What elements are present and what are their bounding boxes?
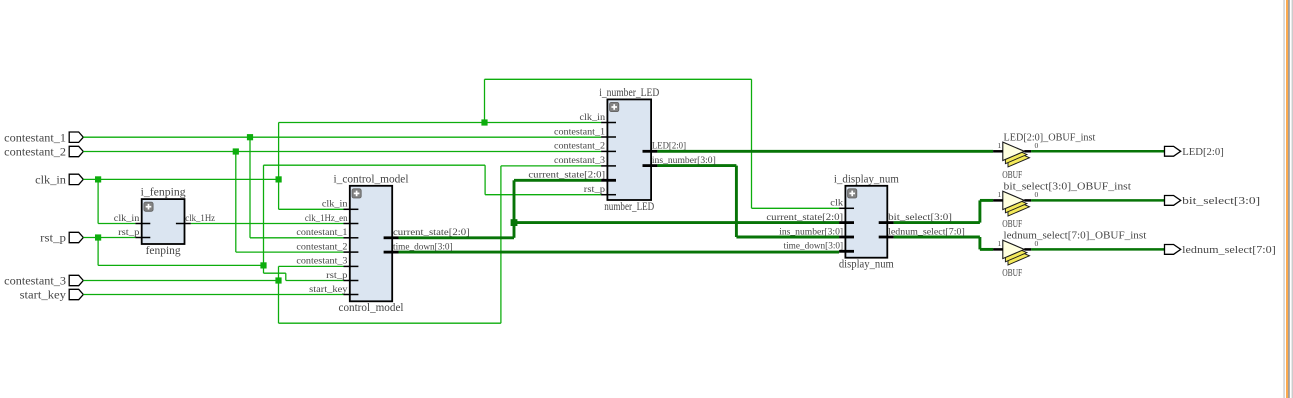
output port lednum_select[7:0] xyxy=(1165,245,1181,255)
pin display_num bit_select[3:0] xyxy=(879,221,894,224)
svg-text:LED[2:0]: LED[2:0] xyxy=(652,141,686,152)
bus LED[2:0] xyxy=(657,150,993,153)
svg-text:contestant_1: contestant_1 xyxy=(4,132,66,144)
svg-text:current_state[2:0]: current_state[2:0] xyxy=(528,170,605,181)
svg-text:contestant_1: contestant_1 xyxy=(554,126,605,137)
module control_model (i_control_model) xyxy=(350,186,392,301)
pin number_LED contestant_2 xyxy=(601,150,616,152)
module display_num (i_display_num) xyxy=(845,186,887,258)
svg-text:lednum_select[7:0]_OBUF_inst: lednum_select[7:0]_OBUF_inst xyxy=(1004,231,1147,242)
junction clk_in/main riser xyxy=(276,176,282,182)
wire contestant_2 net xyxy=(83,152,601,253)
input port rst_p xyxy=(69,232,83,242)
pin display_num time_down[3:0] xyxy=(839,250,854,253)
junction contestant_3 riser xyxy=(275,277,281,283)
pin number_LED clk_in xyxy=(601,122,616,124)
output port bit_select[3:0] xyxy=(1165,196,1181,206)
svg-text:clk_1Hz_en: clk_1Hz_en xyxy=(305,213,348,224)
wire start_key net xyxy=(83,294,343,296)
wire clk_in net xyxy=(83,79,839,223)
svg-text:LED[2:0]: LED[2:0] xyxy=(1182,146,1224,158)
pin control_model contestant_2 xyxy=(344,251,359,253)
module fenping (i_fenping) xyxy=(142,199,185,244)
junction rst_p riser xyxy=(260,262,266,268)
svg-text:contestant_3: contestant_3 xyxy=(554,155,605,166)
svg-text:OBUF: OBUF xyxy=(1002,219,1022,230)
bus ins_number[3:0] xyxy=(657,166,839,237)
svg-text:LED[2:0]_OBUF_inst: LED[2:0]_OBUF_inst xyxy=(1004,133,1096,144)
junction contestant_2 branch xyxy=(233,148,239,154)
buffer U2 bit_select[3:0]_OBUF_inst xyxy=(1008,198,1030,216)
pin control_model rst_p xyxy=(344,280,359,282)
buffer U1 LED[2:0]_OBUF_inst xyxy=(1008,149,1030,167)
pin control_model time_down[3:0] xyxy=(384,251,399,254)
pin fenping clk_1Hz xyxy=(176,223,191,225)
module number_LED (i_number_LED) xyxy=(607,99,651,200)
bus lednum_select OBUF out xyxy=(1031,248,1164,251)
svg-text:i_display_num: i_display_num xyxy=(834,173,899,185)
svg-text:contestant_1: contestant_1 xyxy=(296,227,347,238)
svg-text:clk_in: clk_in xyxy=(114,213,140,224)
scrollbar right edge xyxy=(1283,0,1284,398)
bus LED OBUF out xyxy=(1031,150,1164,153)
pin control_model clk_in xyxy=(344,208,359,210)
input port contestant_3 xyxy=(69,275,83,285)
pin number_LED rst_p xyxy=(601,194,616,196)
pin number_LED current_state[2:0] xyxy=(601,179,616,182)
svg-text:rst_p: rst_p xyxy=(118,227,139,238)
pin fenping clk_in xyxy=(135,223,150,225)
svg-text:1: 1 xyxy=(998,141,1002,150)
pin control_model start_key xyxy=(344,294,359,296)
svg-text:display_num: display_num xyxy=(839,259,894,271)
buffer U3 lednum_select[7:0]_OBUF_inst xyxy=(1008,247,1030,265)
wire contestant_3 net xyxy=(83,166,601,323)
svg-text:contestant_2: contestant_2 xyxy=(4,147,66,159)
svg-text:1: 1 xyxy=(998,190,1002,199)
input port clk_in xyxy=(69,174,83,184)
svg-text:rst_p: rst_p xyxy=(40,233,66,245)
input port start_key xyxy=(69,289,83,299)
svg-text:i_fenping: i_fenping xyxy=(141,187,186,199)
svg-text:ins_number[3:0]: ins_number[3:0] xyxy=(652,155,716,166)
junction clk_in/fenping branch xyxy=(95,176,101,182)
svg-text:i_number_LED: i_number_LED xyxy=(599,87,659,99)
svg-text:1: 1 xyxy=(998,239,1002,248)
wire clk_1Hz net xyxy=(191,223,344,225)
svg-text:time_down[3:0]: time_down[3:0] xyxy=(393,241,453,252)
bus bit_select[3:0] xyxy=(894,200,994,222)
svg-text:current_state[2:0]: current_state[2:0] xyxy=(766,212,843,223)
svg-text:bit_select[3:0]: bit_select[3:0] xyxy=(888,212,952,223)
svg-text:clk_in: clk_in xyxy=(35,175,66,187)
svg-text:ins_number[3:0]: ins_number[3:0] xyxy=(779,226,843,237)
pin number_LED ins_number[3:0] xyxy=(643,164,658,167)
pin number_LED contestant_3 xyxy=(601,165,616,167)
svg-text:contestant_2: contestant_2 xyxy=(296,241,347,252)
svg-text:i_control_model: i_control_model xyxy=(334,173,409,185)
svg-text:rst_p: rst_p xyxy=(326,270,347,281)
output port LED[2:0] xyxy=(1165,146,1181,156)
junction current_state bus xyxy=(511,219,518,226)
svg-text:current_state[2:0]: current_state[2:0] xyxy=(393,227,470,238)
svg-text:clk: clk xyxy=(830,198,843,209)
bus bit_select OBUF out xyxy=(1031,199,1164,202)
pin display_num lednum_select[7:0] xyxy=(879,236,894,239)
svg-text:contestant_2: contestant_2 xyxy=(554,141,605,152)
input port contestant_1 xyxy=(69,132,83,142)
bus time_down[3:0] xyxy=(399,251,840,254)
svg-text:OBUF: OBUF xyxy=(1002,170,1022,181)
svg-text:lednum_select[7:0]: lednum_select[7:0] xyxy=(1182,244,1276,256)
svg-text:bit_select[3:0]_OBUF_inst: bit_select[3:0]_OBUF_inst xyxy=(1004,182,1132,193)
pin display_num clk xyxy=(839,207,854,209)
junction clk_in/display branch xyxy=(481,119,487,125)
pin fenping rst_p xyxy=(135,237,150,239)
bus lednum_select[7:0] xyxy=(894,237,994,249)
wire contestant_1 net xyxy=(83,137,601,238)
pin number_LED LED[2:0] xyxy=(643,150,658,153)
svg-text:OBUF: OBUF xyxy=(1002,268,1022,279)
wire rst_p net xyxy=(83,165,601,280)
junction contestant_1 branch xyxy=(247,134,253,140)
pin display_num ins_number[3:0] xyxy=(839,236,854,239)
svg-text:start_key: start_key xyxy=(309,284,347,295)
pin control_model contestant_1 xyxy=(344,237,359,239)
svg-text:rst_p: rst_p xyxy=(584,184,605,195)
svg-text:clk_in: clk_in xyxy=(580,112,606,123)
svg-text:contestant_3: contestant_3 xyxy=(296,256,347,267)
svg-text:clk_1Hz: clk_1Hz xyxy=(185,213,215,224)
pin control_model clk_1Hz_en xyxy=(344,223,359,225)
svg-text:fenping: fenping xyxy=(146,245,181,257)
svg-text:start_key: start_key xyxy=(20,290,67,302)
pin number_LED contestant_1 xyxy=(601,136,616,138)
bus current_state[2:0] xyxy=(399,180,840,238)
svg-text:lednum_select[7:0]: lednum_select[7:0] xyxy=(888,226,965,237)
pin control_model current_state[2:0] xyxy=(384,236,399,239)
svg-text:time_down[3:0]: time_down[3:0] xyxy=(784,241,844,252)
svg-text:contestant_3: contestant_3 xyxy=(4,276,66,288)
pin display_num current_state[2:0] xyxy=(839,221,854,224)
svg-text:control_model: control_model xyxy=(339,302,404,314)
pin control_model contestant_3 xyxy=(344,265,359,267)
input port contestant_2 xyxy=(69,146,83,156)
svg-text:number_LED: number_LED xyxy=(604,201,654,213)
svg-text:clk_in: clk_in xyxy=(322,199,348,210)
junction rst_p/port branch xyxy=(95,234,101,240)
svg-text:bit_select[3:0]: bit_select[3:0] xyxy=(1182,195,1260,207)
